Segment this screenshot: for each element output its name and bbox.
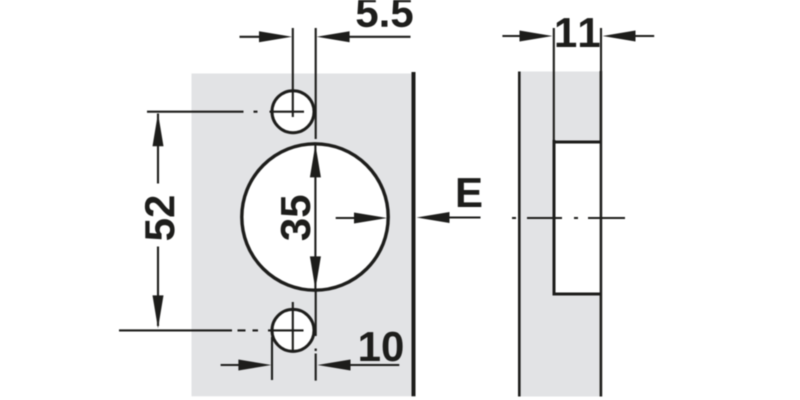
dimension 35 line with arrows <box>310 144 321 289</box>
arrow to cup edge right <box>336 213 387 224</box>
door edge line E <box>412 72 416 396</box>
dimension 11 left arrow <box>502 31 552 42</box>
vertical cross bottom screw hole <box>292 302 294 352</box>
door panel (side view) <box>519 72 601 397</box>
dimension text 35 <box>281 196 311 241</box>
screw hole top <box>272 91 314 133</box>
dimension text 5.5 <box>357 0 413 27</box>
door panel (front view) <box>192 74 412 397</box>
dimension 11 right arrow <box>603 31 655 42</box>
side view right edge <box>600 71 603 397</box>
centerline bottom screw hole <box>119 329 304 331</box>
dimension text 10 <box>360 332 402 362</box>
screw hole bottom <box>272 309 314 351</box>
cup hole Ø35 <box>242 144 388 290</box>
dimension text 11 <box>557 18 600 47</box>
centerline top screw hole <box>147 111 304 113</box>
extension line bar right edge (11 dim) <box>600 28 602 71</box>
dimension 52 line with arrows <box>153 113 164 328</box>
label E with arrow to door edge <box>417 212 481 223</box>
centerline side view <box>512 217 625 219</box>
side view left edge <box>518 72 521 397</box>
dimension 10 left arrow <box>221 360 272 371</box>
extension line screw axis (5.5 left) <box>292 28 294 117</box>
dimension 10 right arrow <box>318 360 400 371</box>
extension line screw tangent left (10 dim) <box>271 337 273 380</box>
dimension 5.5 right arrow <box>317 31 411 42</box>
cup drilling notch (depth 11) <box>553 28 600 296</box>
cup axis line below (10 dim, dash-dot) <box>315 291 317 381</box>
dimension text 52 <box>145 196 175 240</box>
extension line cup axis (5.5 right) <box>315 28 317 139</box>
label text E <box>458 178 482 207</box>
dimension 5.5 left arrow <box>240 31 293 42</box>
